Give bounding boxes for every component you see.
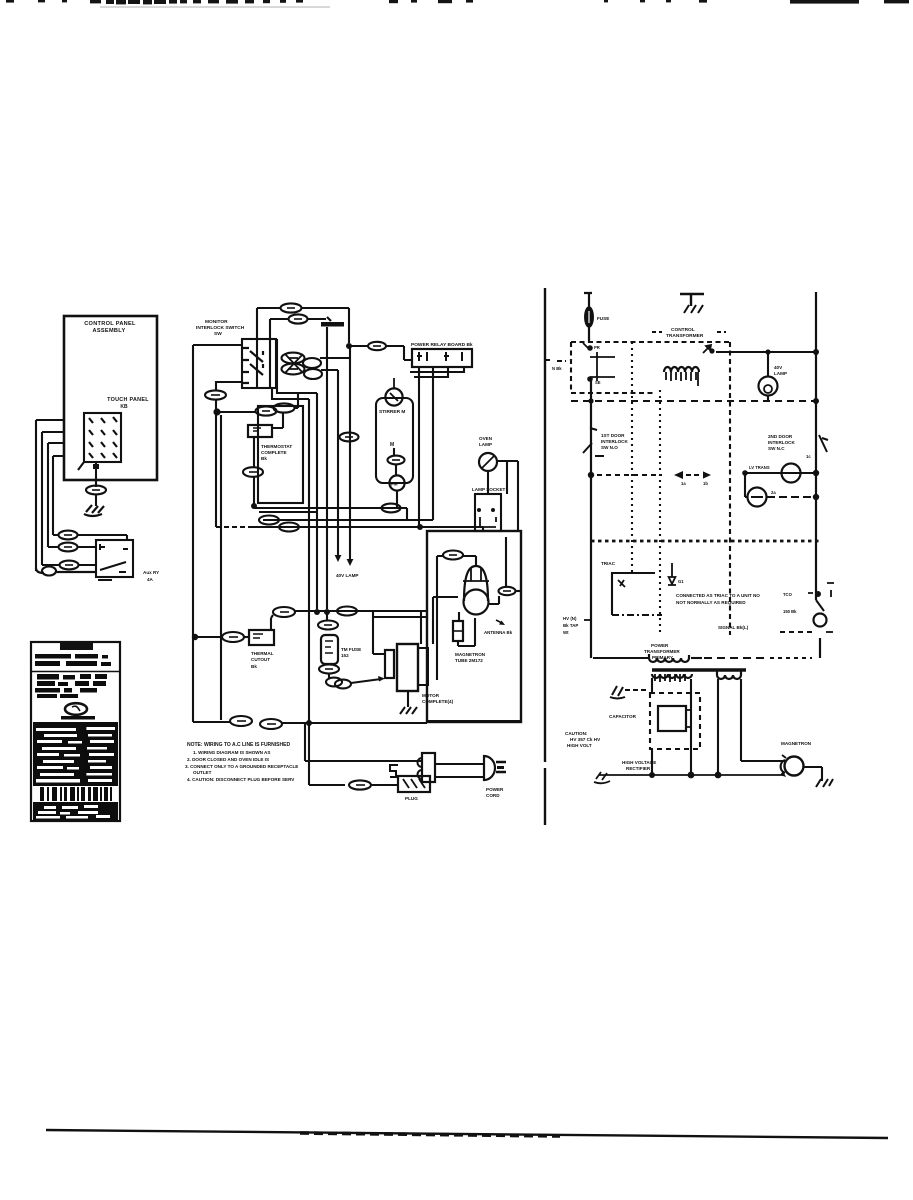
svg-text:MOTOR: MOTOR bbox=[422, 693, 440, 698]
svg-text:POWER: POWER bbox=[651, 643, 669, 648]
svg-text:PLUG: PLUG bbox=[405, 796, 418, 801]
svg-text:Bk TAP: Bk TAP bbox=[563, 623, 578, 628]
fan motor circle bbox=[389, 475, 404, 490]
svg-text:ANTENNA Bk: ANTENNA Bk bbox=[484, 630, 513, 635]
nameplate outline bbox=[31, 642, 120, 821]
nameplate black data table bbox=[33, 722, 118, 786]
wire fuse link to terminal board bbox=[386, 346, 412, 360]
junction on interlock branch bbox=[588, 472, 594, 478]
svg-text:MAGNETRON: MAGNETRON bbox=[781, 741, 812, 746]
svg-text:FM: FM bbox=[391, 482, 398, 487]
svg-text:POWER: POWER bbox=[486, 787, 504, 792]
svg-text:SIGNAL Bk(L): SIGNAL Bk(L) bbox=[718, 625, 749, 630]
svg-text:POWER RELAY BOARD Bk: POWER RELAY BOARD Bk bbox=[411, 342, 473, 348]
fan motor block bbox=[385, 650, 394, 678]
interlock relay box bbox=[96, 540, 133, 577]
svg-text:NOT NORMALLY AS REQUIRED: NOT NORMALLY AS REQUIRED bbox=[676, 600, 746, 605]
connector oval D2 bbox=[289, 314, 308, 323]
fuse link oval bbox=[368, 342, 386, 350]
magnetron filament block bbox=[453, 621, 463, 641]
connector oval below panel bbox=[86, 486, 106, 495]
svg-text:150 Bk: 150 Bk bbox=[783, 609, 797, 614]
svg-text:ASSEMBLY: ASSEMBLY bbox=[93, 328, 126, 334]
bus line A bbox=[254, 508, 407, 520]
dotted divider bbox=[591, 540, 821, 543]
svg-text:HV 357 Ck HV: HV 357 Ck HV bbox=[570, 737, 601, 742]
svg-text:KB: KB bbox=[120, 404, 128, 410]
receptacle jog bbox=[390, 765, 398, 777]
svg-text:SW: SW bbox=[214, 331, 222, 337]
svg-text:INTERLOCK SWITCH: INTERLOCK SWITCH bbox=[196, 325, 245, 331]
svg-text:4A: 4A bbox=[147, 577, 154, 582]
svg-text:SW N.C: SW N.C bbox=[768, 446, 785, 451]
fuse column: top oval bbox=[326, 614, 328, 620]
wire keypad to connector bbox=[93, 464, 99, 469]
oven lamp circle bbox=[479, 453, 497, 471]
svg-text:4. CAUTION: DISCONNECT PLUG BE: 4. CAUTION: DISCONNECT PLUG BEFORE SERV bbox=[187, 777, 295, 782]
svg-text:CUTOUT: CUTOUT bbox=[251, 657, 270, 662]
svg-text:THERMAL: THERMAL bbox=[251, 651, 274, 656]
capacitor dashed box bbox=[650, 693, 700, 749]
wire oval D2 legs bbox=[270, 319, 326, 388]
board diode out bbox=[703, 345, 711, 353]
svg-text:THERMOSTAT: THERMOSTAT bbox=[261, 444, 292, 449]
touch panel keypad bbox=[84, 413, 121, 462]
dashed entry stubs bbox=[545, 360, 566, 361]
svg-text:TRANSFORMER: TRANSFORMER bbox=[666, 333, 704, 339]
notes block bbox=[185, 742, 298, 782]
svg-text:1b: 1b bbox=[703, 481, 708, 486]
RY2 bottom wire bbox=[253, 437, 255, 467]
line fuse bbox=[584, 293, 592, 343]
monitor switch contact marks bbox=[327, 317, 331, 321]
svg-text:FUSE: FUSE bbox=[597, 316, 609, 321]
ground chassis bbox=[84, 505, 104, 516]
svg-text:2ND DOOR: 2ND DOOR bbox=[768, 434, 793, 439]
heater ground bbox=[803, 767, 822, 781]
twin ovals junction bbox=[326, 678, 342, 687]
svg-text:TM FUSE: TM FUSE bbox=[341, 647, 361, 652]
bus line B bbox=[259, 511, 317, 513]
cluster wires right bbox=[320, 358, 350, 370]
wire oval D1 left leg bbox=[257, 308, 281, 388]
svg-text:40V LAMP: 40V LAMP bbox=[336, 573, 358, 578]
filament ground bbox=[610, 686, 625, 699]
svg-text:SW N.O: SW N.O bbox=[601, 445, 618, 450]
left stub labels bbox=[584, 619, 591, 621]
nameplate bottom black band bbox=[33, 802, 118, 820]
svg-text:RECTIFIER: RECTIFIER bbox=[626, 766, 651, 771]
lv transformer circles line bbox=[744, 472, 816, 474]
hv bottom bus bbox=[599, 774, 783, 776]
receptacle bbox=[422, 753, 435, 782]
thermal cutout box bbox=[249, 630, 274, 645]
decorative top cut-off text fragments bbox=[6, 0, 14, 3]
svg-text:40V: 40V bbox=[774, 365, 783, 370]
svg-text:1ST DOOR: 1ST DOOR bbox=[601, 433, 625, 438]
wire oval D1 right leg bbox=[301, 308, 349, 343]
cord feed wires bbox=[305, 723, 422, 761]
lamp wires bbox=[488, 461, 518, 531]
bottom feed line bbox=[593, 657, 649, 659]
svg-text:OVEN: OVEN bbox=[479, 436, 493, 441]
svg-text:TRIAC: TRIAC bbox=[601, 561, 616, 566]
1st interlock switch bbox=[583, 428, 604, 456]
section separator rail bbox=[544, 288, 546, 825]
connector oval on panel bus bbox=[205, 390, 226, 399]
svg-text:OUTLET: OUTLET bbox=[193, 770, 212, 775]
wire to fuse link bbox=[349, 345, 368, 347]
wires to magnetron bbox=[437, 556, 476, 680]
svg-text:CONTROL: CONTROL bbox=[671, 327, 695, 333]
bottom bus wire bbox=[193, 721, 230, 723]
lamp socket box bbox=[475, 494, 501, 531]
wire bottom rule bbox=[46, 1130, 888, 1138]
junction dot on left rail bbox=[192, 634, 198, 640]
terminal board box bbox=[412, 349, 472, 367]
svg-text:TCO: TCO bbox=[783, 592, 793, 597]
fuse bottom oval bbox=[319, 665, 339, 674]
wire connector oval B bbox=[59, 543, 78, 552]
svg-text:COMPLETE(4): COMPLETE(4) bbox=[422, 699, 454, 704]
svg-text:LAMP SOCKET: LAMP SOCKET bbox=[472, 487, 506, 492]
antenna arrow bbox=[496, 620, 502, 623]
magnetron enclosure box bbox=[427, 531, 521, 722]
interlock lower corner wires bbox=[272, 339, 317, 785]
connector oval on drop wire bbox=[340, 433, 359, 442]
cord lines bbox=[435, 764, 484, 777]
svg-text:HIGH VOLT: HIGH VOLT bbox=[567, 743, 592, 748]
oval pair above RY2 bbox=[256, 406, 277, 415]
nameplate header bar bbox=[60, 643, 93, 650]
wire stubs into panel left bbox=[36, 420, 64, 571]
svg-text:Bk: Bk bbox=[261, 456, 267, 461]
wire to right rail bbox=[716, 351, 816, 353]
capacitor body bbox=[658, 706, 686, 731]
svg-text:G1: G1 bbox=[678, 579, 684, 584]
junction dots on lamp bus bbox=[314, 609, 320, 615]
lv transformer primary branch bbox=[587, 345, 593, 351]
svg-text:MONITOR: MONITOR bbox=[205, 319, 228, 325]
svg-text:INTERLOCK: INTERLOCK bbox=[768, 440, 795, 445]
twin drop wires below dot bbox=[216, 415, 221, 720]
connector oval right of magnetron bbox=[499, 587, 516, 595]
corner blob connector bbox=[42, 567, 56, 576]
transformer secondary coil bbox=[664, 367, 699, 372]
stirrer feed oval on bus A bbox=[382, 504, 401, 513]
svg-text:CAPACITOR: CAPACITOR bbox=[609, 714, 637, 719]
svg-text:Aux RY: Aux RY bbox=[143, 570, 159, 575]
long drop wire with arrow 1 bbox=[337, 370, 339, 556]
svg-text:LAMP: LAMP bbox=[774, 371, 787, 376]
svg-text:MAGNETRON: MAGNETRON bbox=[455, 652, 486, 657]
svg-text:INTERLOCK: INTERLOCK bbox=[601, 439, 628, 444]
control board dashed box bbox=[571, 341, 729, 343]
svg-text:NOTE: WIRING TO A.C LINE IS FU: NOTE: WIRING TO A.C LINE IS FURNISHED bbox=[187, 742, 290, 748]
dashed mid line bbox=[571, 400, 814, 402]
svg-text:PR: PR bbox=[594, 345, 600, 350]
svg-text:CORD: CORD bbox=[486, 793, 500, 798]
nameplate ratings text block bbox=[35, 674, 107, 698]
right rail bbox=[815, 292, 817, 600]
enclosure connector oval bbox=[443, 551, 463, 560]
wire connector oval C bbox=[60, 561, 79, 570]
stirrer motor circle bbox=[385, 388, 402, 405]
svg-text:CONNECTED AS TRIAC TO A UNIT N: CONNECTED AS TRIAC TO A UNIT NO bbox=[676, 593, 760, 598]
power relay assembly box bbox=[258, 406, 303, 503]
svg-text:2. DOOR CLOSED AND OVEN IDLE I: 2. DOOR CLOSED AND OVEN IDLE IS bbox=[187, 757, 269, 762]
svg-text:TOUCH PANEL: TOUCH PANEL bbox=[107, 397, 149, 403]
svg-text:2a: 2a bbox=[771, 490, 776, 495]
plug body box bbox=[398, 776, 430, 792]
stirrer assembly box bbox=[376, 398, 413, 483]
junction node T bbox=[346, 343, 352, 349]
svg-text:Bk: Bk bbox=[251, 664, 257, 669]
svg-text:1. WIRING DIAGRAM IS SHOWN AS: 1. WIRING DIAGRAM IS SHOWN AS bbox=[193, 750, 270, 755]
svg-text:1a: 1a bbox=[681, 481, 686, 486]
nameplate header text rows bbox=[35, 654, 111, 666]
svg-text:N Bk: N Bk bbox=[552, 366, 562, 371]
magnetron heater circle bbox=[785, 757, 804, 776]
svg-text:TUBE 2M172: TUBE 2M172 bbox=[455, 658, 483, 663]
control panel box bbox=[64, 316, 157, 480]
svg-text:TRANSFORMER: TRANSFORMER bbox=[644, 649, 680, 654]
hv core bar bbox=[652, 668, 746, 671]
rail thermal protector bbox=[816, 600, 824, 611]
svg-text:Wt: Wt bbox=[563, 630, 569, 635]
svg-text:PRIMARY: PRIMARY bbox=[652, 655, 673, 660]
interlock switch assembly box bbox=[242, 339, 276, 388]
wire connector oval A bbox=[59, 531, 78, 540]
wire panel to interlock bbox=[193, 345, 242, 722]
connector cluster ovals bbox=[282, 353, 305, 364]
wire to motor with arrow bbox=[351, 679, 381, 683]
bus line E bbox=[216, 526, 252, 528]
thermal fuse body bbox=[321, 635, 338, 664]
chassis ground top bbox=[680, 294, 704, 306]
interlock branch left bbox=[590, 379, 592, 658]
magnetron right lead bbox=[488, 537, 506, 604]
oven lamp lead bbox=[767, 352, 769, 377]
svg-text:STIRRER M: STIRRER M bbox=[379, 409, 405, 415]
terminal board drop wires bbox=[410, 367, 464, 377]
svg-text:1c: 1c bbox=[806, 454, 811, 459]
svg-text:CONTROL PANEL: CONTROL PANEL bbox=[84, 321, 136, 327]
motor ground bbox=[407, 691, 409, 707]
dashes at rail bottom bbox=[780, 631, 814, 633]
svg-text:LV TRANS: LV TRANS bbox=[749, 465, 770, 470]
nameplate barcode bbox=[33, 786, 118, 802]
bus line C bbox=[263, 519, 433, 521]
motor upper feed bbox=[373, 611, 427, 654]
connector oval below RY2 bbox=[243, 467, 263, 477]
oval left of cutout bbox=[222, 632, 244, 642]
monitor drop wire long bbox=[326, 327, 328, 609]
relay coil box RY2 bbox=[248, 425, 272, 437]
rail switch bbox=[819, 435, 828, 452]
nameplate logo ellipse bbox=[65, 703, 87, 715]
oval on lamp bus mid bbox=[337, 607, 357, 616]
hv primary coil bbox=[649, 654, 689, 662]
svg-text:152: 152 bbox=[341, 653, 349, 658]
connector oval D1 on top wire bbox=[281, 303, 302, 312]
dashed link with arrows bbox=[597, 474, 662, 476]
small oval in stirrer box bbox=[388, 456, 405, 465]
junction dot left bus bbox=[213, 408, 220, 415]
hv secondary coil bbox=[652, 674, 692, 678]
svg-text:3. CONNECT ONLY TO A GROUNDED: 3. CONNECT ONLY TO A GROUNDED RECEPTACLE bbox=[185, 764, 298, 769]
svg-text:LAMP: LAMP bbox=[479, 442, 492, 447]
hv drops bbox=[652, 678, 785, 775]
oval on lamp bus left bbox=[273, 607, 295, 617]
wire RY2 to oval pair bbox=[272, 413, 283, 428]
oven lamp bulb bbox=[759, 377, 778, 396]
svg-text:SE: SE bbox=[595, 380, 601, 385]
triac box bbox=[612, 573, 655, 615]
svg-text:HV (N): HV (N) bbox=[563, 616, 577, 621]
lamp bus line bbox=[295, 611, 427, 644]
plug head bbox=[484, 756, 495, 780]
wire oval to cutout bbox=[271, 615, 273, 630]
magnetron tube symbol bbox=[464, 566, 488, 601]
svg-text:M: M bbox=[390, 442, 394, 448]
long drop wire with arrow 2 bbox=[349, 346, 351, 560]
gate diode bbox=[668, 563, 676, 585]
svg-text:COMPLETE: COMPLETE bbox=[261, 450, 287, 455]
svg-text:CAUTION:: CAUTION: bbox=[565, 731, 588, 736]
